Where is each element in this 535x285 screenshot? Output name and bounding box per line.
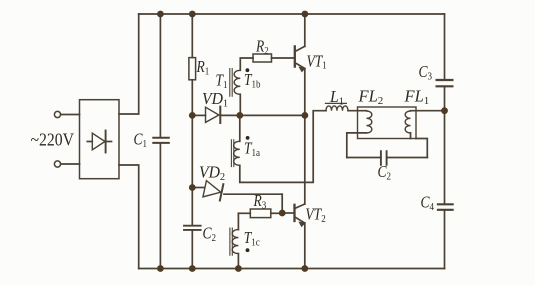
junction bottom rail / C2 xyxy=(189,265,196,272)
resistor R1 xyxy=(189,14,196,115)
svg-text:C3: C3 xyxy=(419,64,433,83)
junction bus / VT1 emitter xyxy=(302,112,309,119)
wire terminal bottom to bridge xyxy=(61,163,80,165)
svg-text:FL2: FL2 xyxy=(358,87,384,107)
wire FL1 bottom tap xyxy=(411,133,428,158)
T1b core xyxy=(230,69,232,97)
diode VD2 (tilted) xyxy=(192,181,282,213)
junction bus / T1b-T1a xyxy=(236,112,243,119)
wire bus VD1 to VT1 emitter node xyxy=(240,114,305,116)
junction right rail / FL1 output xyxy=(441,107,448,114)
svg-text:R2: R2 xyxy=(255,38,269,57)
svg-text:L1: L1 xyxy=(329,89,344,108)
wire left vertical lower (bridge - to bottom rail) xyxy=(119,165,139,269)
terminal input top xyxy=(54,111,60,117)
svg-text:VT1: VT1 xyxy=(307,53,327,72)
inductor L1 xyxy=(326,103,367,110)
capacitor C3 xyxy=(437,14,453,111)
wire FL1 output to right rail xyxy=(411,110,445,112)
svg-text:R3: R3 xyxy=(253,193,267,212)
T1a polarity dot xyxy=(246,136,250,140)
T1b polarity dot xyxy=(246,68,250,72)
winding FL2 xyxy=(367,111,372,133)
svg-text:C4: C4 xyxy=(421,194,435,213)
svg-text:T1c: T1c xyxy=(244,230,261,249)
svg-text:C1: C1 xyxy=(134,132,148,151)
wire bottom rail xyxy=(139,268,445,270)
winding FL1 xyxy=(405,111,410,133)
transistor VT2 xyxy=(295,204,305,269)
wire top rail xyxy=(139,13,445,15)
svg-text:FL1: FL1 xyxy=(404,87,430,107)
junction bottom rail / VT2 emitter xyxy=(301,265,308,272)
resistor R3 xyxy=(238,209,294,218)
svg-text:VD2: VD2 xyxy=(199,164,225,183)
junction bus / R1-VD2 branch xyxy=(189,112,196,119)
capacitor C2 (base bias) xyxy=(184,226,201,269)
svg-text:T1b: T1b xyxy=(244,72,261,91)
wire left vertical upper (bridge + to top rail) xyxy=(119,14,139,114)
wire FL2 bottom tap xyxy=(347,133,367,158)
junction R3 / VT2 base xyxy=(279,210,286,217)
junction top rail / R1 xyxy=(189,11,196,18)
svg-text:C2: C2 xyxy=(378,164,392,183)
diode VD1 xyxy=(192,107,240,123)
svg-text:T1a: T1a xyxy=(244,140,261,159)
svg-text:T1: T1 xyxy=(216,72,228,91)
wire R1/VD2/C2 vertical xyxy=(191,115,193,225)
svg-text:~220V: ~220V xyxy=(31,130,74,150)
junction bottom rail / T1c xyxy=(235,265,242,272)
terminal input bottom xyxy=(54,161,60,167)
filter box FL2/FL1 xyxy=(358,107,417,139)
wire VT1 emitter to VT2 collector xyxy=(304,115,306,204)
svg-text:VD1: VD1 xyxy=(202,91,228,110)
junction bottom rail / C1 xyxy=(157,265,164,272)
svg-text:VT2: VT2 xyxy=(305,206,325,225)
wire terminal top to bridge xyxy=(61,114,80,116)
junction VD2 anode tap xyxy=(189,184,196,191)
T1c core xyxy=(230,228,232,255)
transformer winding T1b xyxy=(234,58,253,115)
junction top rail / C1 xyxy=(157,11,164,18)
wire T1a bottom to L1 feed xyxy=(240,111,326,183)
svg-text:C2: C2 xyxy=(203,225,217,244)
svg-text:R1: R1 xyxy=(196,59,210,78)
transformer winding T1a xyxy=(234,115,240,165)
junction top rail / VT1 collector xyxy=(302,11,309,18)
bridge diode symbol xyxy=(87,131,111,153)
T1a core xyxy=(231,140,233,167)
capacitor C2 (filter) xyxy=(347,151,428,165)
bridge rectifier box xyxy=(80,100,120,179)
resistor R2 xyxy=(253,54,295,62)
capacitor C4 xyxy=(438,111,453,269)
transistor VT1 xyxy=(295,14,305,115)
T1c polarity dot xyxy=(246,248,250,252)
capacitor C1 xyxy=(153,14,169,269)
transformer winding T1c xyxy=(232,213,238,268)
